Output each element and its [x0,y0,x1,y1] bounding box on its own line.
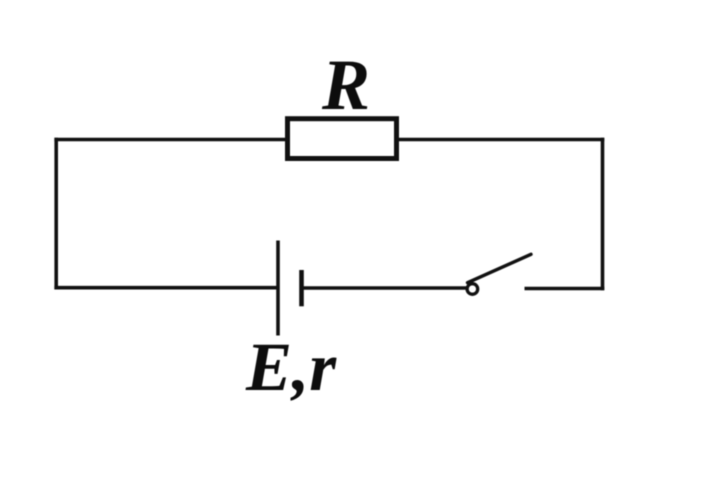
switch S pivot circle [467,284,478,295]
switch S lever arm [468,254,532,282]
wire top-right horizontal [397,138,604,142]
resistor R1 body [288,119,397,159]
svg-text:R: R [321,45,370,125]
wire top-left horizontal [54,138,287,142]
battery E short plate (negative) [299,270,304,306]
wire right vertical [601,138,605,291]
wire left vertical [54,138,58,290]
wire bottom-right horizontal (switch to right side) [525,287,605,291]
wire bottom-left horizontal [54,286,278,290]
svg-text:E,r: E,r [245,329,337,405]
wire bottom-middle horizontal (battery to switch) [302,286,467,290]
battery E long plate (positive) [276,241,280,336]
